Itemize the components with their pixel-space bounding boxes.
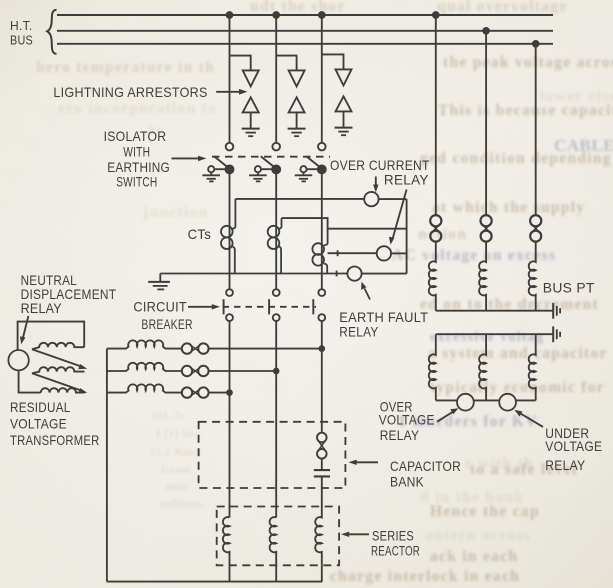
label ISOLATOR WITH EARTHING SWITCH xyxy=(104,128,170,189)
RVT winding 1 xyxy=(32,343,84,350)
under voltage relay coil xyxy=(499,394,516,411)
wire: relay to RVT top loop xyxy=(18,322,85,351)
arrow from arrestor label xyxy=(216,89,247,95)
isolating links in capacitor bank xyxy=(317,433,327,459)
svg-text:BANK: BANK xyxy=(390,473,424,489)
svg-text:BUS: BUS xyxy=(10,34,33,48)
CT 2 on feeder 2 xyxy=(268,218,282,273)
lightning arrestor 2 gap triangles xyxy=(289,70,305,128)
node: feeder 1 tap on bus 1 xyxy=(227,12,233,18)
arrow from earth fault label to relay xyxy=(361,282,370,300)
label NEUTRAL DISPLACEMENT RELAY xyxy=(21,272,117,316)
svg-text:VOLTAGE: VOLTAGE xyxy=(379,411,435,427)
svg-text:SWITCH: SWITCH xyxy=(116,173,157,189)
svg-text:SERIES: SERIES xyxy=(372,527,414,543)
wire: feeder 3 to star bus xyxy=(321,565,323,581)
label OVER CURRENT RELAY xyxy=(330,157,430,187)
wire: feeder 1 isolator to breaker xyxy=(229,173,231,289)
svg-text:BREAKER: BREAKER xyxy=(141,316,192,332)
wire L4 right segment xyxy=(362,273,407,275)
wire: relay circuit right return xyxy=(406,199,408,274)
label CAPACITOR BANK xyxy=(390,458,461,490)
wire: left riser of filter circuit xyxy=(106,349,108,582)
star point bottom bus xyxy=(107,581,322,583)
PT fuse links line 1 xyxy=(430,215,441,242)
circuit breaker dashed linkage xyxy=(223,306,317,308)
bus line 3 xyxy=(57,43,553,45)
svg-text:RELAY: RELAY xyxy=(21,300,63,316)
arrow from neutral displacement label to relay xyxy=(20,316,28,344)
svg-text:EARTH FAULT: EARTH FAULT xyxy=(339,309,428,325)
svg-text:LIGHTNING ARRESTORS: LIGHTNING ARRESTORS xyxy=(53,84,207,100)
PT primary winding 1 xyxy=(429,242,436,311)
series reactor coil 2 xyxy=(270,517,277,565)
PT secondary winding 2 xyxy=(479,334,486,400)
node: bus PT line 2 tap on bus 2 xyxy=(483,28,489,34)
node: bus PT line 1 tap on bus 1 xyxy=(433,12,439,18)
wire: relay bottom to winding 3 xyxy=(19,370,41,392)
breaker pole 1 xyxy=(224,289,233,321)
PT primary winding 3 xyxy=(529,242,536,311)
isolator pole 3 xyxy=(300,143,325,174)
CT 3 on feeder 3 xyxy=(312,229,327,274)
svg-text:CAPACITOR: CAPACITOR xyxy=(390,458,461,474)
label SERIES REACTOR xyxy=(371,527,420,558)
lightning arrestor 1 gap triangles xyxy=(243,70,259,128)
wire: feeder 2 isolator to breaker xyxy=(275,173,277,289)
svg-text:BUS PT: BUS PT xyxy=(543,280,595,296)
junction dot phase line 2 xyxy=(274,369,279,374)
over voltage relay coil xyxy=(457,394,474,411)
arrow from over voltage label to relay xyxy=(437,408,459,422)
ground of earthing switch 3 xyxy=(295,172,313,181)
wire: feeder 2 from bus to isolator xyxy=(275,15,277,143)
ground under arrestor 2 xyxy=(288,129,306,137)
svg-text:RELAY: RELAY xyxy=(545,457,585,473)
fuse links on phase line 1 xyxy=(182,343,209,353)
neutral displacement relay coil xyxy=(8,350,28,370)
wire: feeder 3 from bus to isolator xyxy=(321,15,323,143)
wire: stub to lightning arrestor 3 xyxy=(322,54,344,69)
wire phase line 1 to feeder 3 xyxy=(209,348,322,350)
junction tick on L3 xyxy=(337,250,339,256)
wire: bus PT line 3 xyxy=(535,44,537,216)
junction tick on L4 xyxy=(336,271,338,277)
wire L2: CT2 secondary stepped line xyxy=(282,218,407,229)
ground under arrestor 1 xyxy=(242,129,260,137)
svg-text:WITH: WITH xyxy=(123,143,150,159)
svg-text:CTs: CTs xyxy=(188,226,212,242)
node: bus PT line 3 tap on bus 3 xyxy=(533,41,539,47)
wire: feeder 1 to star bus xyxy=(229,565,231,581)
wire: feeder 2 to star bus xyxy=(275,565,277,581)
wire: stub to lightning arrestor 1 xyxy=(230,56,251,71)
PT secondary top bus xyxy=(436,333,553,335)
node: feeder 2 tap on bus 1 xyxy=(273,12,279,18)
arrow from isolator label xyxy=(172,156,207,161)
wire: feeder 3 isolator to breaker xyxy=(321,173,323,289)
phase line 3 with choke coil xyxy=(107,384,182,392)
bus line 2 xyxy=(57,30,553,32)
ground of PT primary star (rotated) xyxy=(553,303,560,319)
label UNDER VOLTAGE RELAY xyxy=(545,425,602,473)
svg-text:CIRCUIT: CIRCUIT xyxy=(133,298,187,314)
capacitor element xyxy=(314,459,330,507)
earth fault relay coil xyxy=(347,267,361,281)
label RESIDUAL VOLTAGE TRANSFORMER xyxy=(10,399,100,448)
wire: bus PT line 2 xyxy=(485,31,487,216)
label EARTH FAULT RELAY xyxy=(339,309,428,340)
PT fuse links line 2 xyxy=(481,215,492,242)
svg-text:H.T.: H.T. xyxy=(10,19,33,33)
phase line 1 with choke coil xyxy=(107,340,182,348)
wire: stub to lightning arrestor 2 xyxy=(276,56,296,71)
series reactor dashed enclosure xyxy=(217,507,339,566)
svg-text:VOLTAGE: VOLTAGE xyxy=(10,416,67,432)
wire L3: CT3 secondary to over current relay 2 xyxy=(328,252,377,254)
label CIRCUIT BREAKER xyxy=(133,298,192,332)
wire L1: CT1 secondary to over current relay 1 xyxy=(235,198,364,200)
bus line 1 xyxy=(57,14,553,16)
wire L4: residual line to earth fault relay xyxy=(160,273,347,275)
arrow from under voltage label to relay xyxy=(514,410,543,427)
PT fuse links line 3 xyxy=(530,215,541,242)
ground of earthing switch 1 xyxy=(202,172,220,181)
svg-text:REACTOR: REACTOR xyxy=(371,542,420,558)
RVT winding 2 xyxy=(32,367,85,373)
capacitor bank dashed enclosure xyxy=(199,422,346,488)
isolator linkage dashed line xyxy=(212,156,330,158)
junction dot phase line 3 xyxy=(227,390,232,395)
paper texture (decorative) xyxy=(0,0,1,1)
wire: feeder 1 breaker to capacitor bank xyxy=(229,321,231,518)
svg-text:TRANSFORMER: TRANSFORMER xyxy=(10,432,100,448)
ground of PT secondary (rotated) xyxy=(553,326,560,342)
ground of earthing switch 2 xyxy=(249,172,267,181)
wire L3 right segment xyxy=(391,252,407,254)
PT primary winding 2 xyxy=(479,242,486,311)
series reactor coil 3 xyxy=(315,507,322,566)
phase line 2 with choke coil xyxy=(107,363,182,371)
wire: feeder 3 breaker to capacitor bank xyxy=(321,321,323,432)
svg-text:RELAY: RELAY xyxy=(380,427,420,443)
junction dot phase line 1 xyxy=(319,346,324,351)
wire: bus PT line 1 xyxy=(435,15,437,216)
svg-text:RELAY: RELAY xyxy=(339,324,379,340)
PT secondary winding 3 xyxy=(529,334,536,400)
svg-text:RESIDUAL: RESIDUAL xyxy=(10,399,71,415)
CT 1 on feeder 1 xyxy=(221,199,235,274)
node: feeder 3 tap on bus 1 xyxy=(319,12,325,18)
wire: feeder 2 breaker to capacitor bank xyxy=(275,321,277,518)
svg-text:ISOLATOR: ISOLATOR xyxy=(104,128,167,144)
over current relay coil 2 xyxy=(377,246,391,260)
brace for H.T. BUS xyxy=(47,10,56,54)
arrow from capacitor bank label xyxy=(349,460,379,465)
RVT winding 3 xyxy=(41,388,85,392)
fuse links on phase line 3 xyxy=(182,387,209,397)
isolator pole 1 xyxy=(208,143,233,174)
ground under arrestor 3 xyxy=(335,128,353,136)
series reactor coil 1 xyxy=(223,517,230,565)
lightning arrestor 3 gap triangles xyxy=(336,69,352,127)
over current relay coil 1 xyxy=(364,192,378,206)
label H.T. BUS xyxy=(10,19,33,48)
arrow from circuit breaker label xyxy=(188,304,220,309)
wire phase line 3 to feeder 1 xyxy=(209,392,230,394)
RVT zigzag arrow 2 xyxy=(32,373,87,393)
arrow from relay label to relay coil 2 xyxy=(389,190,407,245)
arrow from over current relay label to relay coil 1 xyxy=(373,177,378,193)
breaker pole 3 xyxy=(313,289,325,321)
arrow from series reactor label xyxy=(341,532,369,537)
wire L1 right segment xyxy=(379,198,407,200)
PT primary star bus xyxy=(436,310,553,312)
isolator pole 2 xyxy=(255,143,280,174)
svg-text:VOLTAGE: VOLTAGE xyxy=(545,438,602,454)
wire: feeder 1 from bus to isolator xyxy=(229,15,231,143)
wire phase line 2 to feeder 2 xyxy=(209,370,277,372)
PT secondary bottom bus xyxy=(436,399,536,401)
label OVER VOLTAGE RELAY xyxy=(379,398,435,443)
breaker pole 2 xyxy=(269,289,280,321)
RVT zigzag arrow 1 xyxy=(32,349,87,369)
PT secondary winding 1 xyxy=(429,334,436,400)
svg-text:RELAY: RELAY xyxy=(384,171,429,187)
fuse links on phase line 2 xyxy=(182,366,209,376)
ground of CT residual line xyxy=(148,274,170,290)
